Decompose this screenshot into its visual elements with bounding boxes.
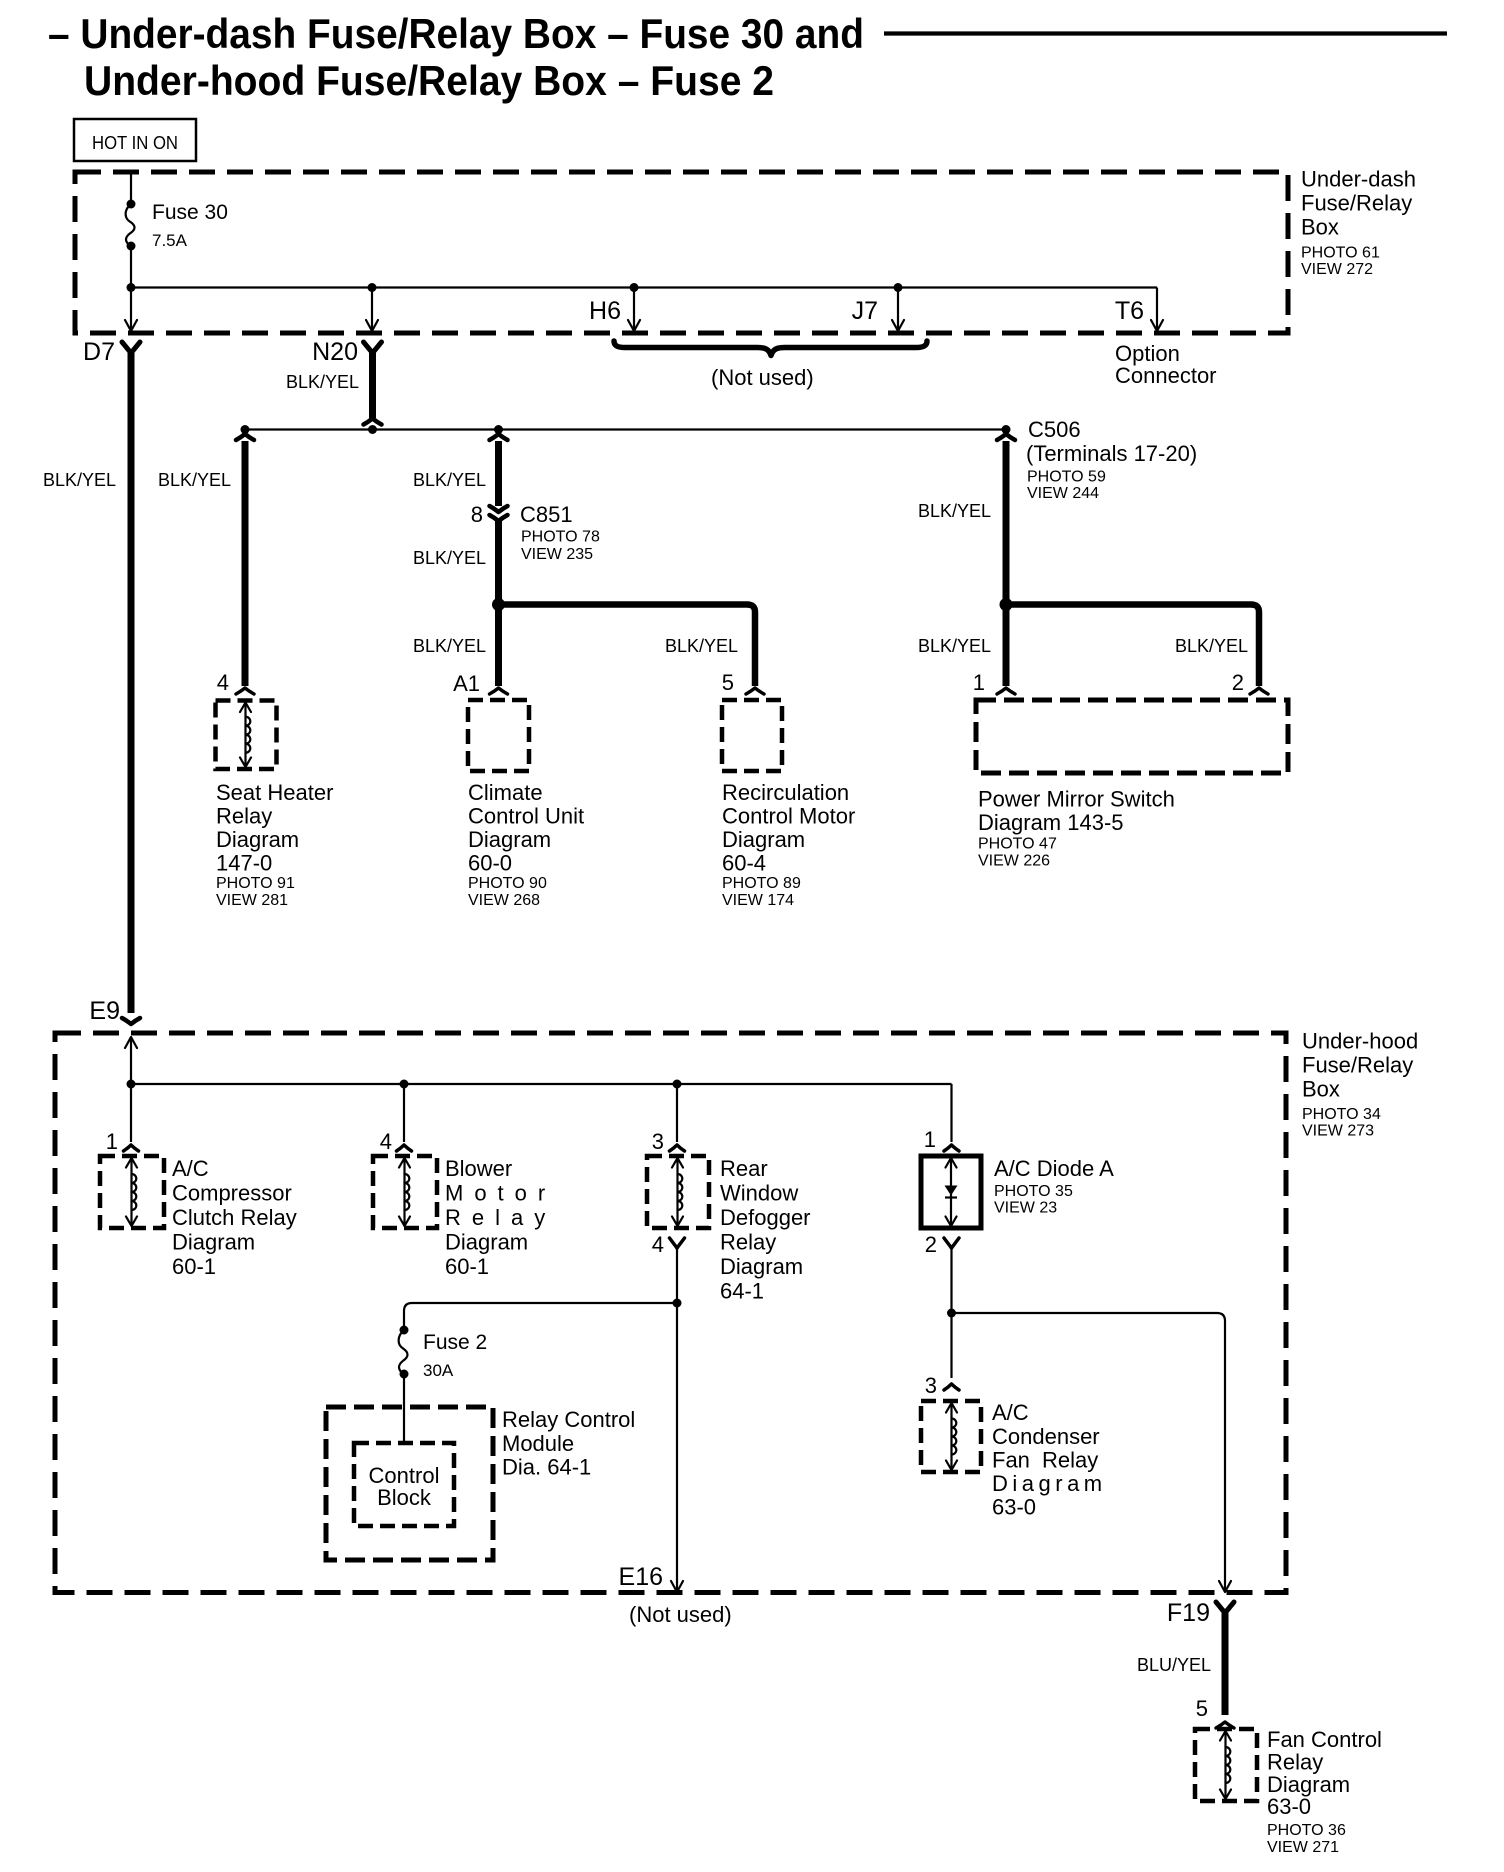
- svg-text:Under-hood: Under-hood: [1302, 1029, 1418, 1054]
- svg-text:60-1: 60-1: [445, 1254, 489, 1279]
- svg-text:Under-dash: Under-dash: [1301, 167, 1416, 192]
- svg-text:4: 4: [217, 670, 229, 695]
- svg-text:Power Mirror Switch: Power Mirror Switch: [978, 787, 1175, 812]
- svg-text:(Not used): (Not used): [629, 1602, 732, 1627]
- svg-text:J7: J7: [852, 297, 878, 325]
- svg-text:Connector: Connector: [1115, 363, 1217, 388]
- svg-text:Dia. 64-1: Dia. 64-1: [502, 1455, 591, 1480]
- svg-text:PHOTO 59: PHOTO 59: [1027, 469, 1106, 486]
- svg-text:BLK/YEL: BLK/YEL: [43, 470, 116, 490]
- svg-text:60-0: 60-0: [468, 851, 512, 876]
- svg-text:Blower: Blower: [445, 1156, 512, 1181]
- svg-text:Seat Heater: Seat Heater: [216, 780, 333, 805]
- svg-text:BLK/YEL: BLK/YEL: [413, 548, 486, 568]
- svg-text:BLK/YEL: BLK/YEL: [665, 636, 738, 656]
- svg-text:PHOTO 36: PHOTO 36: [1267, 1822, 1346, 1839]
- svg-text:7.5A: 7.5A: [152, 231, 188, 250]
- svg-text:F19: F19: [1167, 1599, 1210, 1627]
- svg-text:BLK/YEL: BLK/YEL: [413, 636, 486, 656]
- svg-text:VIEW 23: VIEW 23: [994, 1200, 1057, 1217]
- svg-text:Fuse 2: Fuse 2: [423, 1331, 487, 1354]
- svg-text:30A: 30A: [423, 1361, 454, 1380]
- svg-text:HOT IN ON: HOT IN ON: [92, 133, 178, 153]
- svg-text:PHOTO 91: PHOTO 91: [216, 875, 295, 892]
- svg-text:Diagram: Diagram: [992, 1471, 1107, 1496]
- svg-text:Diagram 143-5: Diagram 143-5: [978, 810, 1124, 835]
- svg-text:Relay: Relay: [720, 1230, 776, 1255]
- svg-text:A/C: A/C: [172, 1156, 209, 1181]
- svg-text:Relay: Relay: [216, 804, 272, 829]
- svg-text:Fuse/Relay: Fuse/Relay: [1302, 1053, 1413, 1078]
- svg-text:Control Unit: Control Unit: [468, 804, 584, 829]
- svg-text:VIEW 235: VIEW 235: [521, 546, 593, 563]
- svg-text:Condenser: Condenser: [992, 1424, 1100, 1449]
- svg-text:(Terminals 17-20): (Terminals 17-20): [1026, 441, 1197, 466]
- svg-text:PHOTO 89: PHOTO 89: [722, 875, 801, 892]
- svg-text:3: 3: [925, 1373, 937, 1398]
- svg-text:C506: C506: [1028, 417, 1081, 442]
- svg-text:1: 1: [973, 670, 985, 695]
- svg-text:VIEW 268: VIEW 268: [468, 892, 540, 909]
- svg-text:1: 1: [924, 1127, 936, 1152]
- svg-text:Under-hood Fuse/Relay Box – Fu: Under-hood Fuse/Relay Box – Fuse 2: [84, 57, 774, 104]
- svg-text:A/C Diode A: A/C Diode A: [994, 1156, 1114, 1181]
- svg-text:Climate: Climate: [468, 780, 543, 805]
- svg-text:Diagram: Diagram: [172, 1230, 255, 1255]
- svg-text:Diagram: Diagram: [216, 827, 299, 852]
- svg-text:VIEW 174: VIEW 174: [722, 892, 794, 909]
- svg-text:BLK/YEL: BLK/YEL: [286, 372, 359, 392]
- svg-text:2: 2: [925, 1232, 937, 1257]
- svg-text:Fuse 30: Fuse 30: [152, 201, 228, 224]
- svg-text:BLK/YEL: BLK/YEL: [918, 636, 991, 656]
- svg-text:VIEW 281: VIEW 281: [216, 892, 288, 909]
- svg-text:Relay: Relay: [1267, 1750, 1323, 1775]
- svg-text:PHOTO 90: PHOTO 90: [468, 875, 547, 892]
- svg-text:4: 4: [380, 1129, 392, 1154]
- svg-text:147-0: 147-0: [216, 851, 272, 876]
- svg-text:3: 3: [652, 1129, 664, 1154]
- svg-text:VIEW 244: VIEW 244: [1027, 485, 1099, 502]
- svg-text:Box: Box: [1302, 1077, 1340, 1102]
- svg-text:Diagram: Diagram: [468, 827, 551, 852]
- svg-text:C851: C851: [520, 502, 573, 527]
- svg-text:Block: Block: [377, 1485, 432, 1510]
- svg-text:PHOTO 47: PHOTO 47: [978, 836, 1057, 853]
- svg-text:Box: Box: [1301, 215, 1339, 240]
- svg-text:1: 1: [106, 1129, 118, 1154]
- svg-text:63-0: 63-0: [1267, 1794, 1311, 1819]
- svg-text:Defogger: Defogger: [720, 1205, 811, 1230]
- svg-text:Window: Window: [720, 1181, 798, 1206]
- svg-text:Fuse/Relay: Fuse/Relay: [1301, 191, 1412, 216]
- svg-text:63-0: 63-0: [992, 1495, 1036, 1520]
- svg-text:60-4: 60-4: [722, 851, 766, 876]
- svg-text:VIEW 273: VIEW 273: [1302, 1123, 1374, 1140]
- svg-text:PHOTO 61: PHOTO 61: [1301, 245, 1380, 262]
- svg-text:5: 5: [722, 670, 734, 695]
- svg-text:Fan Relay: Fan Relay: [992, 1448, 1098, 1473]
- svg-text:2: 2: [1232, 670, 1244, 695]
- svg-text:H6: H6: [589, 297, 621, 325]
- svg-text:E9: E9: [89, 997, 120, 1025]
- svg-text:Relay: Relay: [445, 1205, 556, 1230]
- svg-text:Compressor: Compressor: [172, 1181, 292, 1206]
- svg-text:A1: A1: [453, 671, 480, 696]
- svg-text:4: 4: [652, 1232, 664, 1257]
- svg-text:Fan Control: Fan Control: [1267, 1727, 1382, 1752]
- svg-text:T6: T6: [1115, 297, 1144, 325]
- svg-text:D7: D7: [83, 338, 115, 366]
- svg-text:Diagram: Diagram: [720, 1254, 803, 1279]
- svg-text:60-1: 60-1: [172, 1254, 216, 1279]
- svg-text:PHOTO 34: PHOTO 34: [1302, 1106, 1381, 1123]
- svg-text:64-1: 64-1: [720, 1279, 764, 1304]
- svg-text:– Under-dash Fuse/Relay Box –: – Under-dash Fuse/Relay Box – Fuse 30 an…: [48, 10, 864, 57]
- svg-text:E16: E16: [619, 1563, 663, 1591]
- svg-text:Relay Control: Relay Control: [502, 1407, 635, 1432]
- svg-text:Clutch Relay: Clutch Relay: [172, 1205, 297, 1230]
- svg-text:Diagram: Diagram: [722, 827, 805, 852]
- svg-text:Motor: Motor: [445, 1181, 556, 1206]
- svg-text:VIEW 226: VIEW 226: [978, 853, 1050, 870]
- svg-text:PHOTO 78: PHOTO 78: [521, 529, 600, 546]
- svg-text:BLK/YEL: BLK/YEL: [1175, 636, 1248, 656]
- svg-text:Diagram: Diagram: [445, 1230, 528, 1255]
- svg-text:BLK/YEL: BLK/YEL: [918, 501, 991, 521]
- svg-text:VIEW 271: VIEW 271: [1267, 1839, 1339, 1856]
- svg-text:8: 8: [471, 502, 483, 527]
- svg-text:Module: Module: [502, 1431, 574, 1456]
- svg-text:N20: N20: [312, 338, 358, 366]
- svg-text:A/C: A/C: [992, 1400, 1029, 1425]
- svg-text:BLU/YEL: BLU/YEL: [1137, 1655, 1211, 1675]
- svg-text:Recirculation: Recirculation: [722, 780, 849, 805]
- svg-text:(Not used): (Not used): [711, 365, 814, 390]
- svg-text:VIEW 272: VIEW 272: [1301, 261, 1373, 278]
- svg-text:BLK/YEL: BLK/YEL: [413, 470, 486, 490]
- svg-text:BLK/YEL: BLK/YEL: [158, 470, 231, 490]
- svg-text:Rear: Rear: [720, 1156, 768, 1181]
- svg-text:Control Motor: Control Motor: [722, 804, 855, 829]
- svg-text:PHOTO 35: PHOTO 35: [994, 1183, 1073, 1200]
- svg-text:5: 5: [1196, 1696, 1208, 1721]
